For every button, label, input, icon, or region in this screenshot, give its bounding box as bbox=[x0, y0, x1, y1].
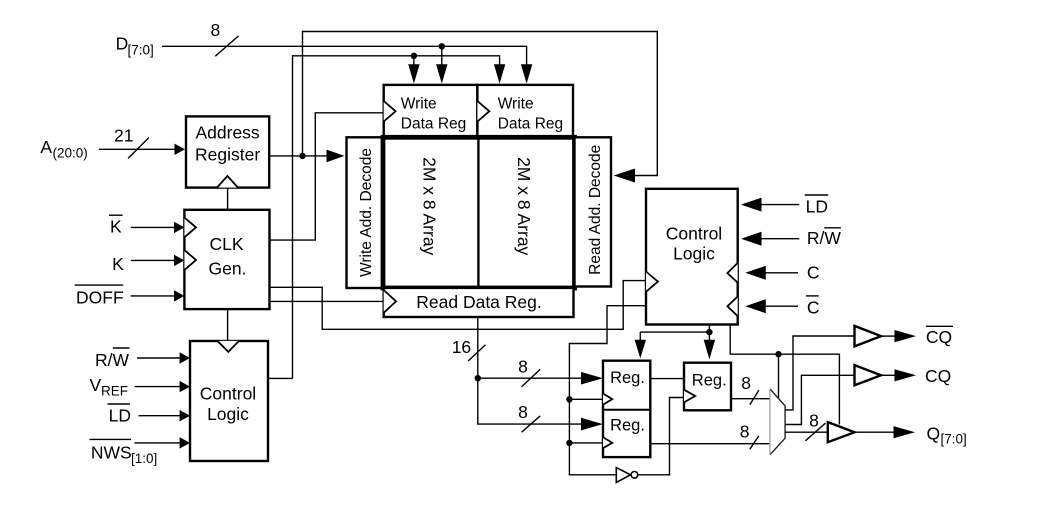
svg-text:Reg.: Reg. bbox=[610, 417, 645, 435]
wire 16-bit bus from read data reg bbox=[478, 317, 582, 424]
clk gen U2 bbox=[184, 210, 269, 309]
svg-text:Control: Control bbox=[200, 383, 256, 403]
clock triangle right reg bbox=[684, 390, 695, 403]
svg-text:Register: Register bbox=[195, 145, 260, 165]
wire DOFF input bbox=[131, 295, 176, 297]
arrow down into write data reg 2 right bbox=[521, 64, 532, 83]
node C label bbox=[807, 262, 820, 282]
clock notch on address register bottom bbox=[217, 176, 238, 188]
wire C-bar input bbox=[764, 305, 798, 307]
node A(20:0) label bbox=[40, 137, 87, 161]
svg-text:21: 21 bbox=[114, 126, 133, 146]
arrow down into write data reg 2 left bbox=[494, 64, 505, 83]
svg-text:Gen.: Gen. bbox=[209, 259, 247, 279]
write add decode box bbox=[347, 137, 384, 288]
output buffer CQ bbox=[855, 365, 882, 385]
junction dot on y=55.8 line at x=413.9 bbox=[411, 53, 417, 59]
wire clk stub to reg 1 clock bbox=[569, 398, 603, 400]
output buffer Q bbox=[828, 422, 855, 442]
arrow R/W into control logic bbox=[180, 352, 190, 363]
bus width label 21 bbox=[114, 126, 149, 159]
junction dot below right control logic bbox=[706, 329, 712, 335]
control logic U4 right bbox=[646, 189, 738, 325]
arrow into write add decode bbox=[327, 150, 345, 163]
read data reg box bbox=[384, 288, 574, 317]
wire R/W right input bbox=[760, 238, 799, 240]
clock triangle on write data reg 2 bbox=[477, 101, 489, 122]
wire reg 2 long output to mux lower input bbox=[650, 443, 770, 445]
arrow down into right reg bbox=[704, 340, 715, 360]
svg-text:Write: Write bbox=[498, 96, 534, 113]
node K-bar label bbox=[109, 215, 123, 236]
wire clk gen to control logic clock bbox=[227, 309, 229, 341]
arrow R/W into right control logic bbox=[741, 232, 762, 246]
svg-text:[7:0]: [7:0] bbox=[128, 43, 154, 58]
bus width label 16 bbox=[452, 337, 486, 361]
wire mux output to Q buffer bbox=[785, 431, 828, 433]
svg-text:V: V bbox=[90, 375, 102, 395]
clock triangle on write data reg 1 bbox=[384, 101, 396, 122]
svg-text:(20:0): (20:0) bbox=[53, 146, 88, 161]
wire LD-bar right input bbox=[760, 204, 799, 206]
node R/W-bar label right bbox=[807, 228, 842, 248]
svg-text:C: C bbox=[807, 298, 820, 318]
svg-text:C: C bbox=[807, 262, 820, 282]
node CQ-bar label bbox=[926, 326, 953, 347]
node CQ label bbox=[925, 366, 951, 386]
arrow C into right control logic bbox=[745, 266, 766, 280]
wire address wrap-around to read add decode bbox=[303, 32, 658, 176]
node DOFF-bar label bbox=[75, 285, 124, 307]
svg-text:A: A bbox=[40, 137, 52, 157]
wire K input bbox=[131, 259, 176, 261]
arrow NWS into control logic bbox=[180, 437, 190, 448]
arrow down into write data reg 1 left bbox=[408, 64, 419, 83]
wire from right control logic bottom to reg load arrows bbox=[640, 325, 709, 341]
arrow K into clk gen bbox=[174, 255, 184, 266]
arrow LD into control logic bbox=[180, 410, 190, 421]
clock triangle K on clk gen edge bbox=[184, 250, 196, 270]
write data reg 2 box bbox=[477, 85, 573, 137]
svg-text:Logic: Logic bbox=[207, 404, 249, 424]
clock triangle C on right control logic right edge bbox=[727, 263, 737, 283]
node Q[7:0] label bbox=[927, 424, 967, 447]
node VREF label bbox=[90, 375, 129, 399]
bus width label 8 at mux lower input bbox=[740, 422, 759, 450]
svg-text:16: 16 bbox=[452, 337, 471, 357]
clock triangle on right control logic left edge bbox=[646, 272, 658, 292]
arrow down into write data reg 1 right bbox=[436, 64, 447, 83]
wire D bus horizontal bbox=[162, 46, 527, 65]
wire A input line bbox=[99, 148, 176, 150]
bus width label 8 upper branch bbox=[518, 357, 540, 387]
clock triangle reg 2 bbox=[603, 437, 612, 448]
svg-text:K: K bbox=[110, 217, 122, 237]
wire R/W input bbox=[137, 357, 181, 359]
arrow VREF into control logic bbox=[180, 381, 190, 392]
svg-text:8: 8 bbox=[211, 20, 221, 40]
svg-text:LD: LD bbox=[109, 406, 131, 426]
mux trapezoid bbox=[770, 389, 785, 455]
junction dot on enable line bbox=[775, 351, 781, 357]
wire clk out long line to right control logic clock bbox=[270, 281, 647, 330]
wire clk out to write data reg clock bbox=[270, 113, 384, 240]
wire LD input bbox=[139, 415, 182, 417]
clock triangle C-bar on right control logic right edge bbox=[727, 296, 737, 316]
node C-bar label bbox=[806, 296, 820, 318]
junction dot clk stub reg 1 bbox=[566, 396, 572, 402]
svg-text:2M x 8 Array: 2M x 8 Array bbox=[514, 157, 534, 255]
node D[7:0] label bbox=[116, 34, 154, 58]
wire Q output bbox=[855, 431, 894, 433]
wire clk stub to reg 2 clock bbox=[569, 442, 603, 444]
control logic U3 left bbox=[190, 341, 268, 461]
svg-text:Read Data Reg.: Read Data Reg. bbox=[416, 292, 542, 312]
wire CQ-bar output bbox=[881, 335, 895, 337]
svg-text:8: 8 bbox=[740, 422, 750, 442]
address register U1 bbox=[186, 116, 269, 187]
junction dot on D bus at x=441.8 bbox=[439, 43, 445, 49]
arrow CQ output bbox=[895, 369, 917, 381]
wire CQ output bbox=[881, 374, 895, 376]
svg-text:CQ: CQ bbox=[925, 366, 951, 386]
svg-text:LD: LD bbox=[806, 197, 828, 217]
wire clk gen to address register clock bbox=[227, 188, 229, 210]
svg-text:Reg.: Reg. bbox=[692, 372, 727, 390]
svg-text:Address: Address bbox=[195, 123, 259, 143]
svg-text:NWS: NWS bbox=[91, 443, 132, 463]
junction dot on 16-bit bus bbox=[475, 375, 481, 381]
svg-text:Data Reg: Data Reg bbox=[498, 116, 563, 133]
arrow LD-bar into right control logic bbox=[741, 198, 762, 212]
arrow K-bar into clk gen bbox=[174, 222, 184, 233]
svg-text:Write Add. Decode: Write Add. Decode bbox=[358, 148, 375, 277]
bus width label 8 on D bus bbox=[211, 20, 239, 56]
svg-text:Data Reg: Data Reg bbox=[401, 116, 466, 133]
2M x 8 array block thick border bbox=[383, 137, 575, 288]
wire right reg output to mux upper input bbox=[731, 398, 770, 400]
svg-text:Q: Q bbox=[927, 424, 941, 444]
svg-text:Write: Write bbox=[401, 96, 437, 113]
arrow left into read add decode bbox=[614, 169, 635, 183]
svg-text:8: 8 bbox=[518, 402, 528, 422]
svg-text:2M x 8 Array: 2M x 8 Array bbox=[419, 157, 439, 255]
svg-text:Read Add. Decode: Read Add. Decode bbox=[587, 145, 604, 275]
write data reg 1 box bbox=[384, 85, 478, 137]
bus width label 8 at mux upper input bbox=[741, 373, 759, 405]
node LD-bar label right bbox=[805, 195, 829, 217]
wire 8-bit branch to reg 1 bbox=[478, 377, 582, 379]
clock notch on control logic top bbox=[217, 341, 239, 352]
arrow CQ-bar output bbox=[895, 330, 917, 342]
arrow Q output bbox=[894, 426, 916, 438]
read add decode box bbox=[575, 137, 612, 286]
arrow into address register bbox=[175, 144, 186, 155]
svg-text:REF: REF bbox=[101, 384, 128, 399]
wire control line to write data regs (y=55.8) bbox=[293, 56, 500, 379]
wire NWS input bbox=[134, 442, 181, 444]
wire drop to write data reg 1 left arrow bbox=[413, 56, 415, 65]
svg-text:[7:0]: [7:0] bbox=[941, 432, 967, 447]
inverter on clock line bbox=[616, 468, 637, 483]
clock triangle K-bar on clk gen edge bbox=[184, 218, 196, 238]
svg-text:R/W: R/W bbox=[95, 350, 130, 370]
arrow DOFF into clk gen bbox=[174, 290, 184, 301]
wire inverter output to right reg clock bbox=[638, 398, 684, 475]
reg pair box left bbox=[603, 361, 650, 457]
output buffer CQ-bar bbox=[855, 326, 882, 347]
svg-text:R/W: R/W bbox=[807, 228, 842, 248]
svg-text:Logic: Logic bbox=[673, 243, 715, 263]
clock triangle on read data reg bbox=[384, 290, 396, 313]
wire C input bbox=[764, 272, 798, 274]
node R/W-bar label left bbox=[95, 348, 130, 370]
arrow into reg 1 bbox=[581, 372, 603, 385]
wire right control logic clock distribution line bbox=[569, 306, 646, 475]
wire reg 1 output to right reg bbox=[650, 378, 684, 380]
wire VREF input bbox=[134, 386, 181, 388]
reg box right bbox=[684, 363, 731, 411]
svg-text:8: 8 bbox=[518, 357, 528, 377]
svg-text:[1:0]: [1:0] bbox=[131, 451, 157, 466]
svg-text:DOFF: DOFF bbox=[76, 287, 124, 307]
bus width label 8 lower branch bbox=[518, 402, 540, 432]
wire enable line from right control logic to output buffer bbox=[730, 325, 839, 425]
clock triangle reg 1 bbox=[603, 394, 612, 405]
node LD-bar label left bbox=[108, 404, 131, 426]
wire D bus drop to write data reg 1 right arrow bbox=[441, 46, 443, 65]
svg-text:CQ: CQ bbox=[926, 327, 952, 347]
wire mux select drop bbox=[778, 354, 780, 398]
wire stub from left control logic right edge bbox=[268, 377, 293, 379]
wire address register output to write add decode bbox=[269, 155, 328, 157]
wire mux output to CQ-bar buffer bbox=[785, 336, 854, 410]
wire mux output to CQ buffer bbox=[785, 375, 854, 424]
wire K-bar input bbox=[131, 226, 176, 228]
bus width label 8 at Q buffer bbox=[805, 411, 825, 441]
node NWS[1:0] label bbox=[90, 439, 158, 466]
svg-text:8: 8 bbox=[741, 373, 751, 393]
svg-text:Reg.: Reg. bbox=[610, 369, 645, 387]
svg-text:8: 8 bbox=[809, 411, 819, 431]
arrow C-bar into right control logic bbox=[745, 299, 766, 313]
svg-text:D: D bbox=[116, 34, 129, 54]
svg-text:K: K bbox=[112, 254, 124, 274]
wire clk out to read data reg clock bbox=[270, 300, 384, 302]
node K label bbox=[112, 254, 124, 274]
svg-text:CLK: CLK bbox=[209, 234, 243, 254]
junction dot on address output bbox=[299, 153, 305, 159]
arrow down into left reg pair bbox=[635, 340, 646, 359]
arrow into reg 2 bbox=[581, 418, 603, 431]
svg-text:Control: Control bbox=[666, 224, 722, 244]
junction dot clk stub reg 2 bbox=[566, 440, 572, 446]
